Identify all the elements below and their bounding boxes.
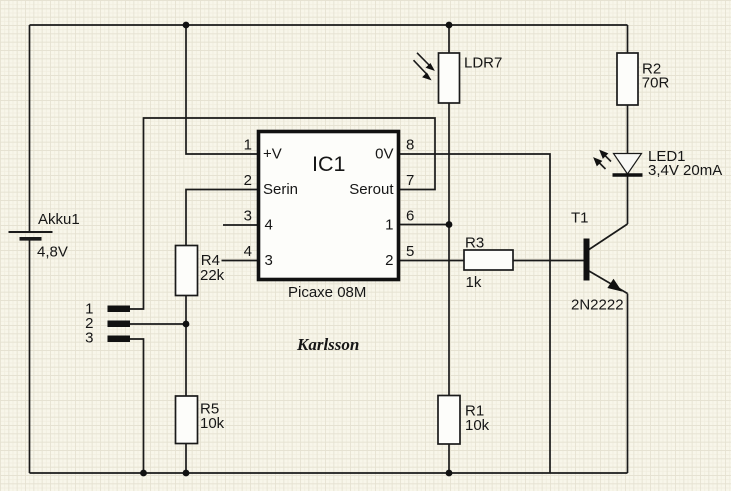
svg-text:Picaxe 08M: Picaxe 08M [288,284,366,301]
svg-text:3: 3 [244,208,252,225]
wire top dot to LDR7 [448,25,450,53]
svg-text:7: 7 [406,172,414,189]
svg-text:3: 3 [85,330,93,347]
wire top rail to R2 [627,25,629,53]
wire T1 collector diagonal [589,224,628,250]
wire connector pin2 to R4/R5 node [130,323,186,325]
svg-text:Serout: Serout [349,181,394,198]
svg-text:2: 2 [385,252,393,269]
wire top rail [30,24,628,26]
wire R2 to LED1 anode [627,105,629,153]
svg-text:LDR7: LDR7 [464,55,502,72]
svg-text:2N2222: 2N2222 [571,297,624,314]
junction node dot pin6 / LDR7-R1 [446,221,453,228]
LED1 emitted light arrow 2 [598,161,606,169]
transistor T1 2N2222 [571,210,624,314]
wire pin6 to node [400,224,449,226]
connector pin 1 [85,301,130,318]
LDR7 light arrow 1 [417,53,432,68]
svg-text:1k: 1k [466,274,482,291]
resistor R2 70R [617,53,669,105]
svg-text:1: 1 [385,217,393,234]
svg-text:70R: 70R [642,75,670,92]
wire R4 to R5 [185,295,187,396]
wire pin5 to R3 [400,260,464,262]
wire T1 emitter diagonal [589,271,628,294]
junction node dot at top rail / +V [183,22,190,29]
wire R5 to bottom rail [185,444,187,474]
svg-text:2: 2 [244,172,252,189]
IC U1 Picaxe 08M box [259,132,399,280]
svg-text:1: 1 [244,137,252,154]
wire T1 emitter to bottom rail [627,294,629,474]
svg-text:6: 6 [406,208,414,225]
svg-text:R3: R3 [465,235,484,252]
svg-text:10k: 10k [465,417,490,434]
wire bottom rail [30,472,628,474]
wire node +V: top dot down to pin1 [186,25,257,154]
junction node dot bottom rail / R1 [446,470,453,477]
svg-text:3,4V 20mA: 3,4V 20mA [648,162,722,179]
svg-text:+V: +V [263,146,282,163]
wire pin3 stub [223,224,257,226]
wire R1 to bottom rail [448,444,450,473]
svg-text:8: 8 [406,137,414,154]
svg-text:Karlsson: Karlsson [296,335,359,354]
svg-text:IC1: IC1 [312,152,345,176]
svg-text:T1: T1 [571,210,589,227]
junction node dot at top rail / LDR7 [446,22,453,29]
svg-text:4,8V: 4,8V [37,244,68,261]
wire LDR7 to R1 through pin6 node [448,103,450,396]
wire Serout loop: pin7 up and over to connector pin1 [130,118,435,309]
wire left rail lower (battery -) [29,239,31,473]
junction node dot bottom rail / connector pin3 [140,470,147,477]
resistor R5 10k [176,396,225,444]
wire connector pin3 to bottom rail [130,339,144,473]
svg-text:10k: 10k [200,415,225,432]
connector pin 3 [85,330,130,347]
wire pin4 stub [222,260,258,262]
resistor R4 22k [176,246,225,296]
svg-text:0V: 0V [375,146,393,163]
LED1 emitted light arrow 1 [603,154,611,162]
wire R3 to T1 base [513,260,584,262]
svg-text:22k: 22k [200,267,225,284]
svg-text:3: 3 [265,252,273,269]
connector pin 2 [85,315,130,332]
svg-text:Serin: Serin [263,181,298,198]
junction node dot bottom rail / R5 [183,470,190,477]
resistor R3 1k [464,235,513,292]
svg-text:5: 5 [406,243,414,260]
wire LED1 cathode to T1 collector [627,175,629,224]
junction node dot connector pin2 / R4-R5 [183,321,190,328]
LED1 [613,148,723,179]
svg-text:4: 4 [244,243,252,260]
wire 0V: pin8 over and down to bottom rail [400,154,550,473]
wire pin2 Serin to R4 [186,190,257,246]
resistor R1 10k [438,396,490,445]
svg-text:Akku1: Akku1 [38,211,80,228]
battery Akku1 [9,211,80,261]
svg-text:4: 4 [265,217,273,234]
LDR7 light arrow 2 [414,60,429,75]
resistor LDR7 [439,53,503,103]
wire left rail upper (battery +) [29,25,31,232]
